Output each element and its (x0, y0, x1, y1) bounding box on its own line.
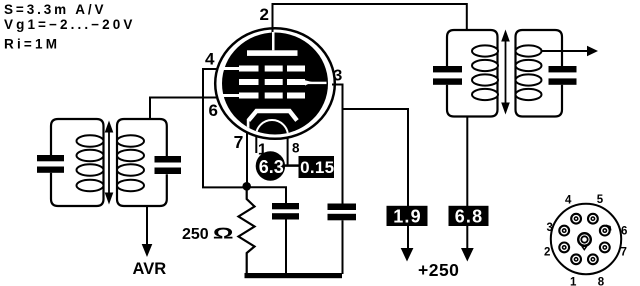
grid row 3 (control grid, lead to pin 6) (223, 93, 305, 99)
capacitor bandfilter1 right (155, 156, 182, 174)
wire pin6 (control grid to bandfilter) (150, 98, 218, 120)
socket outline (551, 204, 621, 274)
anode plate bar (247, 50, 298, 56)
tube disc (222, 33, 328, 135)
svg-text:6: 6 (621, 226, 627, 238)
grid row 1 (224, 66, 306, 72)
wire heater lead pin1 (255, 136, 257, 154)
wire cathode node to bypass cap C1 (247, 187, 286, 204)
grid row 2 (screen, lead to pin 3) (239, 79, 327, 86)
coil bandfilter2 secondary (516, 45, 542, 100)
tube outer envelope (215, 28, 335, 139)
bandfilter 2 left tank loop (447, 30, 498, 117)
wire 6.8 lead from bandfilter2 (466, 117, 468, 251)
svg-text:1: 1 (570, 277, 577, 286)
bandfilter 2 right tank loop (516, 30, 563, 117)
heater voltage 6.3 (256, 151, 285, 180)
wire pin7 cathode down (246, 132, 248, 187)
current label 1.9 (387, 206, 428, 227)
wire branch to 1.9 mA arrow (343, 109, 409, 250)
svg-text:7: 7 (234, 132, 244, 152)
resistor R 250 ohm (239, 190, 255, 274)
svg-text:8: 8 (598, 277, 605, 286)
svg-text:6.8: 6.8 (455, 206, 484, 226)
svg-text:0.15: 0.15 (300, 158, 334, 177)
svg-text:Ri=1M: Ri=1M (4, 36, 60, 51)
svg-text:1.9: 1.9 (393, 206, 422, 226)
svg-text:+250: +250 (418, 260, 459, 280)
capacitor bandfilter2 right (549, 66, 577, 85)
socket pin 5 (588, 214, 598, 224)
wire pin3 (screen grid) down to bypass cap (332, 85, 343, 205)
arrow 1.9 down (401, 248, 414, 262)
svg-text:AVR: AVR (133, 260, 167, 278)
socket pin 4 (571, 214, 581, 224)
wire output arrow (542, 46, 599, 57)
socket pin 2 (559, 243, 569, 253)
socket pin 8 (588, 254, 598, 264)
coil bandfilter1 primary (77, 135, 104, 191)
socket center spigot (578, 233, 591, 250)
svg-text:4: 4 (565, 195, 572, 207)
svg-text:6.3: 6.3 (259, 157, 284, 177)
svg-text:250: 250 (182, 226, 209, 243)
bandfilter 1 right tank loop (117, 119, 167, 206)
capacitor C2 screen bypass (328, 204, 357, 275)
anode lead (272, 32, 275, 50)
current label 6.8 (449, 206, 489, 227)
wire 6.3 to 0.15 (285, 164, 299, 167)
svg-text:6: 6 (209, 101, 218, 120)
svg-text:5: 5 (597, 194, 604, 206)
coil bandfilter1 secondary (117, 135, 144, 191)
arrow 6.8 down (461, 248, 474, 262)
svg-text:Ω: Ω (213, 224, 234, 242)
wire AVR lead (142, 206, 153, 257)
ground bus (245, 273, 343, 278)
capacitor bandfilter2 left (433, 66, 462, 85)
socket pin 3 (559, 226, 569, 236)
cathode (247, 111, 297, 135)
heater current 0.15 (299, 156, 335, 178)
svg-text:3: 3 (547, 222, 553, 234)
wire pin4 (suppressor grid to cathode) (203, 69, 247, 187)
socket pin 7 (600, 243, 610, 253)
socket pin 1 (571, 254, 581, 264)
junction cathode node (242, 182, 251, 191)
coil bandfilter2 primary (472, 45, 498, 100)
heater circle (256, 120, 288, 152)
svg-text:2: 2 (260, 5, 269, 24)
variable coupling arrow bandfilter1 (105, 121, 114, 205)
wire pin2 to top rail (273, 4, 467, 34)
svg-text:7: 7 (621, 247, 627, 259)
socket pin 6 (600, 225, 611, 235)
capacitor bandfilter1 left (37, 155, 64, 173)
bandfilter 1 left tank loop (51, 119, 104, 206)
svg-text:4: 4 (205, 50, 215, 69)
wire heater lead pin8 (287, 137, 289, 165)
svg-text:S=3.3m A/V: S=3.3m A/V (4, 2, 106, 17)
svg-text:2: 2 (544, 247, 550, 259)
capacitor C1 cathode bypass (272, 203, 299, 274)
svg-text:8: 8 (292, 141, 300, 156)
variable coupling arrow bandfilter2 (501, 30, 510, 115)
svg-text:Vg1=−2...−20V: Vg1=−2...−20V (4, 17, 136, 32)
